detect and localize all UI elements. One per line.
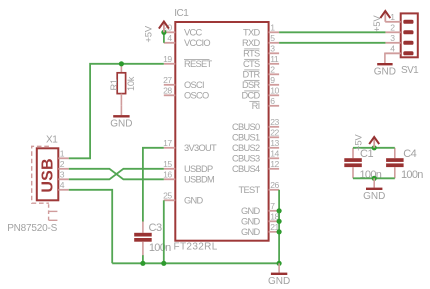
capacitor C3 bbox=[134, 221, 152, 256]
svg-text:14: 14 bbox=[270, 148, 279, 158]
IC1 pin 18 GND (right) bbox=[241, 211, 280, 226]
wire bottom GND rail bbox=[112, 262, 279, 264]
svg-text:100n: 100n bbox=[149, 242, 171, 254]
svg-text:SV1: SV1 bbox=[401, 65, 419, 76]
svg-text:19: 19 bbox=[163, 54, 172, 64]
IC1 pin 12 CBUS4 (right) bbox=[232, 159, 279, 174]
svg-text:PN87520-S: PN87520-S bbox=[7, 223, 57, 234]
wire IC GND25 down to rail bbox=[163, 200, 165, 263]
wire RESET net to USB VBUS bbox=[69, 64, 164, 159]
IC1 pin 27 OSCI (left) bbox=[163, 75, 204, 90]
wire C1-C4 bottom rail bbox=[353, 177, 395, 179]
wire TXD to SV1 pin2 bbox=[279, 31, 385, 33]
svg-text:GND: GND bbox=[184, 196, 204, 206]
svg-text:RTS: RTS bbox=[243, 49, 260, 59]
svg-text:22: 22 bbox=[270, 127, 279, 137]
svg-text:FT232RL: FT232RL bbox=[174, 242, 218, 253]
capacitor C4 bbox=[386, 148, 404, 179]
SV1 pin 1 bbox=[385, 12, 413, 24]
svg-text:17: 17 bbox=[163, 138, 172, 148]
svg-text:OSCI: OSCI bbox=[184, 80, 204, 90]
X1 pin 1 bbox=[58, 148, 69, 158]
svg-text:3: 3 bbox=[60, 169, 65, 179]
svg-text:100n: 100n bbox=[401, 169, 423, 181]
junction GND18 bbox=[277, 219, 282, 224]
junction RESET/R1 bbox=[119, 61, 124, 66]
svg-text:10: 10 bbox=[270, 85, 279, 95]
supply +5V at SV1 pin1 bbox=[380, 11, 390, 22]
svg-text:C3: C3 bbox=[149, 222, 162, 234]
wire USB D+ crossing to USBDP bbox=[69, 169, 164, 180]
svg-text:USBDM: USBDM bbox=[184, 175, 214, 185]
IC1 pin 4 VCCIO (left) bbox=[164, 33, 211, 48]
IC1 pin 23 CBUS0 (right) bbox=[232, 117, 279, 132]
X1 dashed shield outline bbox=[32, 146, 58, 221]
IC1 pin 5 RXD (right) bbox=[242, 33, 279, 48]
svg-text:15: 15 bbox=[163, 159, 172, 169]
svg-text:VCC: VCC bbox=[184, 28, 203, 38]
ground under C1C4 bbox=[363, 178, 385, 202]
SV1 pin 2 bbox=[385, 23, 413, 35]
junction GND7 bbox=[277, 208, 282, 213]
svg-text:GND: GND bbox=[363, 191, 385, 202]
svg-text:VCCIO: VCCIO bbox=[184, 38, 210, 48]
IC1 pin 28 OSCO (left) bbox=[163, 85, 209, 100]
svg-text:OSCO: OSCO bbox=[184, 91, 209, 101]
junction C3/rail bbox=[140, 261, 145, 266]
svg-text:16: 16 bbox=[163, 169, 172, 179]
svg-text:DCD: DCD bbox=[241, 91, 260, 101]
IC1 pin 21 GND (right) bbox=[241, 222, 280, 237]
IC1 pin 3 RTS (right) bbox=[243, 43, 279, 58]
svg-text:2: 2 bbox=[60, 159, 65, 169]
wire USB GND down bbox=[69, 190, 112, 263]
svg-text:23: 23 bbox=[270, 117, 279, 127]
svg-text:TEST: TEST bbox=[239, 185, 261, 195]
junction VCC +5V bbox=[161, 30, 166, 35]
connector SV1 box bbox=[401, 13, 418, 57]
supply +5V at IC1 VCC bbox=[159, 22, 169, 33]
IC IC1 FT232RL box bbox=[175, 22, 268, 241]
svg-text:USB: USB bbox=[40, 158, 57, 192]
IC1 pin 1 TXD (right) bbox=[243, 22, 279, 37]
svg-text:TXD: TXD bbox=[243, 28, 260, 38]
junction C1C4 GND bbox=[372, 176, 377, 181]
SV1 pin 3 bbox=[385, 33, 413, 45]
svg-text:CBUS0: CBUS0 bbox=[232, 122, 260, 132]
svg-text:11: 11 bbox=[270, 54, 279, 64]
resistor R1 bbox=[117, 64, 125, 106]
IC1 pin 16 USBDM (left) bbox=[163, 169, 214, 184]
svg-text:+5V: +5V bbox=[144, 25, 155, 42]
IC1 pin 9 DSR (right) bbox=[242, 75, 279, 90]
svg-text:DTR: DTR bbox=[242, 70, 260, 80]
svg-text:CBUS2: CBUS2 bbox=[232, 143, 260, 153]
svg-text:+5V: +5V bbox=[372, 15, 383, 32]
ground under IC right bbox=[268, 263, 290, 287]
SV1 pin 4 bbox=[385, 44, 413, 56]
svg-text:USBDP: USBDP bbox=[184, 164, 213, 174]
IC1 pin 19 RESET (left) bbox=[163, 54, 212, 69]
X1 pin 4 bbox=[58, 180, 69, 190]
IC1 pin 14 CBUS3 (right) bbox=[232, 148, 279, 163]
wire TEST/GND bus down right side bbox=[278, 190, 280, 263]
IC1 pin 6 RI (right) bbox=[249, 96, 279, 111]
svg-text:RESET: RESET bbox=[184, 59, 213, 69]
svg-text:GND: GND bbox=[110, 119, 132, 130]
svg-text:X1: X1 bbox=[46, 134, 58, 145]
svg-text:3: 3 bbox=[390, 33, 395, 43]
svg-text:C4: C4 bbox=[403, 148, 416, 160]
IC1 pin 26 TEST (right) bbox=[239, 180, 280, 195]
svg-text:27: 27 bbox=[163, 75, 172, 85]
junction GND21 bbox=[277, 229, 282, 234]
capacitor C1 bbox=[344, 148, 362, 179]
svg-text:10k: 10k bbox=[126, 76, 136, 91]
IC1 pin 2 DTR (right) bbox=[242, 64, 279, 79]
svg-text:DSR: DSR bbox=[242, 80, 261, 90]
wire C1-C4 top rail bbox=[353, 147, 395, 149]
svg-text:IC1: IC1 bbox=[174, 8, 189, 19]
junction GND25/rail bbox=[161, 261, 166, 266]
supply +5V at C1/C4 bbox=[369, 137, 379, 148]
X1 pin 3 bbox=[58, 169, 69, 179]
svg-text:28: 28 bbox=[163, 85, 172, 95]
svg-text:CBUS3: CBUS3 bbox=[232, 154, 260, 164]
svg-text:4: 4 bbox=[390, 44, 395, 54]
IC1 pin 11 CTS (right) bbox=[243, 54, 279, 69]
wire 3V3OUT to C3 top bbox=[143, 148, 164, 222]
IC1 pin 13 CBUS2 (right) bbox=[232, 138, 279, 153]
junction rail right bbox=[277, 261, 282, 266]
wire USB D- crossing to USBDM bbox=[69, 169, 164, 180]
IC1 pin 25 GND (left) bbox=[163, 190, 203, 205]
wire RXD to SV1 pin3 bbox=[279, 42, 385, 44]
svg-text:4: 4 bbox=[60, 180, 65, 190]
IC1 pin 15 USBDP (left) bbox=[163, 159, 213, 174]
svg-text:GND: GND bbox=[374, 67, 396, 78]
svg-text:CBUS4: CBUS4 bbox=[232, 164, 260, 174]
svg-text:GND: GND bbox=[241, 227, 261, 237]
svg-text:RI: RI bbox=[252, 101, 260, 111]
svg-text:1: 1 bbox=[390, 12, 395, 22]
svg-text:2: 2 bbox=[390, 23, 395, 33]
svg-text:3V3OUT: 3V3OUT bbox=[184, 143, 217, 153]
svg-text:CTS: CTS bbox=[243, 59, 260, 69]
svg-text:+5V: +5V bbox=[354, 134, 365, 151]
svg-text:26: 26 bbox=[270, 180, 279, 190]
connector X1 USB body bbox=[37, 148, 59, 200]
svg-text:1: 1 bbox=[60, 148, 65, 158]
svg-text:13: 13 bbox=[270, 138, 279, 148]
IC1 pin 20 VCC (left) bbox=[163, 22, 202, 37]
IC1 pin 10 DCD (right) bbox=[241, 85, 279, 100]
IC1 pin 7 GND (right) bbox=[241, 201, 279, 216]
svg-text:R1: R1 bbox=[109, 79, 119, 90]
junction C1C4 +5V bbox=[372, 145, 377, 150]
wire C3 bottom to rail bbox=[142, 255, 144, 263]
ground under R1 bbox=[110, 106, 132, 130]
svg-text:25: 25 bbox=[163, 190, 172, 200]
ground at SV1 pin4 bbox=[374, 53, 401, 77]
IC1 pin 17 3V3OUT (left) bbox=[163, 138, 217, 153]
svg-text:GND: GND bbox=[268, 276, 290, 287]
X1 pin 2 bbox=[58, 159, 69, 169]
svg-text:RXD: RXD bbox=[242, 38, 261, 48]
wire VCC to VCCIO bbox=[163, 32, 165, 43]
svg-text:12: 12 bbox=[270, 159, 279, 169]
svg-text:CBUS1: CBUS1 bbox=[232, 133, 260, 143]
svg-text:GND: GND bbox=[241, 206, 261, 216]
svg-text:GND: GND bbox=[241, 217, 261, 227]
IC1 pin 22 CBUS1 (right) bbox=[232, 127, 279, 142]
